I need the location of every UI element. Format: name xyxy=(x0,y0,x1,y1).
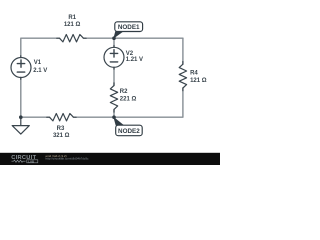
svg-text:1.21 V: 1.21 V xyxy=(126,57,143,63)
resistor R1 xyxy=(57,35,86,42)
NODE1 flag pointer xyxy=(113,31,123,39)
svg-text:321 Ω: 321 Ω xyxy=(53,133,70,139)
wire: R2 to node2 xyxy=(113,109,115,117)
node C junction dot (ground) xyxy=(19,115,23,119)
wire: R3 to node2 junction xyxy=(73,116,114,118)
svg-text:NODE1: NODE1 xyxy=(118,24,140,31)
NODE1 label xyxy=(115,22,143,32)
V1 plus sign xyxy=(17,60,24,67)
svg-text:V1: V1 xyxy=(34,60,42,66)
node A junction dot (node1) xyxy=(112,36,116,40)
svg-text:NODE2: NODE2 xyxy=(118,128,140,135)
resistor R4 xyxy=(179,62,186,91)
svg-text:R1: R1 xyxy=(68,15,76,21)
wire: V1 to ground junction xyxy=(20,78,22,118)
wire: R4 to bottom-right corner to node2 xyxy=(114,88,183,117)
wire: node1 to V2 xyxy=(113,38,115,47)
svg-text:2.1 V: 2.1 V xyxy=(33,68,47,74)
V2 minus sign xyxy=(110,61,117,63)
voltage source V1 xyxy=(20,56,22,80)
svg-text:R3: R3 xyxy=(57,126,65,132)
resistor R3 xyxy=(47,114,76,121)
svg-text:121 Ω: 121 Ω xyxy=(64,22,81,28)
node B junction dot (node2) xyxy=(112,115,116,119)
wire: right branch down to R4 xyxy=(182,38,184,64)
voltage source V2 xyxy=(113,46,115,70)
ground xyxy=(12,117,29,134)
svg-text:LAB: LAB xyxy=(28,159,34,163)
wire: ground junction to R3 xyxy=(21,116,50,118)
NODE2 flag pointer xyxy=(113,117,124,126)
footer bar xyxy=(0,153,220,165)
V1 minus sign xyxy=(17,71,24,73)
NODE2 label xyxy=(116,125,143,136)
wire: V2 to R2 xyxy=(113,67,115,85)
V2 plus sign xyxy=(110,50,117,57)
wire: R1 to node1 to top-right corner xyxy=(83,37,182,39)
svg-text:221 Ω: 221 Ω xyxy=(120,96,137,102)
svg-text:R4: R4 xyxy=(190,70,198,76)
svg-text:R2: R2 xyxy=(120,89,128,95)
wire: V1 top to top-left corner to R1 xyxy=(21,38,60,57)
CircuitLab logo xyxy=(11,155,38,163)
svg-text:http://circuitlab.com/c8d04b7d: http://circuitlab.com/c8d04b7dc9c xyxy=(46,157,89,161)
svg-text:121 Ω: 121 Ω xyxy=(190,78,207,84)
resistor R2 xyxy=(110,83,117,112)
